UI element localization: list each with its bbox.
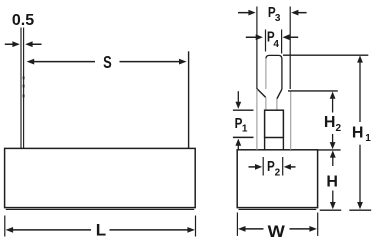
svg-text:H: H <box>326 174 338 191</box>
body bottom sleeve line (side view) <box>239 208 317 210</box>
dimension 0.5 right arrow <box>25 41 41 47</box>
right lead (front view) <box>188 51 190 148</box>
dimension P2 extension lines <box>263 157 283 176</box>
lead inner loop top (rounded) <box>266 55 282 89</box>
lead inner-left edge (light) <box>265 58 267 89</box>
svg-text:S: S <box>103 52 112 72</box>
dimension P4 arrows <box>246 34 298 40</box>
lead edges from kink box into body <box>265 138 284 150</box>
dimension P1 up arrow <box>235 139 241 150</box>
dimension P1 down arrow <box>235 91 241 109</box>
svg-text:1: 1 <box>365 133 371 144</box>
dimension P1 reference lines <box>233 110 254 137</box>
dimension H arrows <box>330 150 336 209</box>
svg-text:2: 2 <box>275 168 281 179</box>
label P3 <box>268 4 281 24</box>
lead kink box (P2 section) <box>265 110 284 137</box>
svg-text:0.5: 0.5 <box>12 12 34 29</box>
capacitor body (side view) <box>237 150 317 208</box>
dimension L extension lines <box>5 216 196 237</box>
dimension P3 arrows <box>238 10 307 16</box>
dimension 0.5 left arrow <box>5 41 20 47</box>
bottom extension segment under H1 <box>349 209 371 211</box>
svg-text:2: 2 <box>336 123 342 134</box>
label H2 <box>324 114 342 134</box>
dimension W extension lines <box>237 213 317 236</box>
svg-text:4: 4 <box>273 39 279 50</box>
body top extension line (datum for H2 / H) <box>318 149 341 151</box>
right crimp diagonal <box>277 89 282 99</box>
dimension H1 arrows <box>357 55 363 209</box>
P4 extension line right <box>281 30 283 54</box>
lead outer-left edge below crimp (light) <box>256 89 258 150</box>
left crimp diagonal <box>257 89 266 98</box>
bottom extension segment under H <box>320 209 342 211</box>
svg-text:3: 3 <box>275 13 281 24</box>
dimension H2 arrows <box>330 92 336 150</box>
lead outer-left edge / P3 extension line <box>256 7 258 90</box>
svg-text:H: H <box>352 125 364 142</box>
svg-text:L: L <box>96 221 106 240</box>
H2 extension line (crimp datum) <box>288 90 338 92</box>
H1 top extension line <box>283 54 368 56</box>
crimp tick marks on left lead <box>23 76 25 97</box>
lead lower-inner edge below right crimp (light) <box>276 99 278 110</box>
dimension L line with arrows <box>6 227 195 233</box>
svg-text:H: H <box>324 114 336 131</box>
dimension W line with arrows <box>238 226 317 232</box>
svg-text:W: W <box>268 223 286 241</box>
left lead (front view, two parallel edge lines) <box>21 28 24 149</box>
dimension P2 arrows <box>249 164 296 170</box>
label P2 <box>267 158 281 179</box>
lead outer-right edge / P3 extension line <box>289 7 291 90</box>
P4 extension line left <box>265 30 267 52</box>
capacitor body (front view) <box>5 148 196 207</box>
lead outer-right edge below crimp (light) <box>290 91 292 150</box>
label H1 <box>352 125 371 145</box>
label P4 <box>267 28 280 50</box>
dimension S line with arrows <box>27 59 187 65</box>
label P1 <box>235 115 248 134</box>
svg-text:1: 1 <box>242 123 248 134</box>
body bottom sleeve line (front view) <box>6 208 194 210</box>
